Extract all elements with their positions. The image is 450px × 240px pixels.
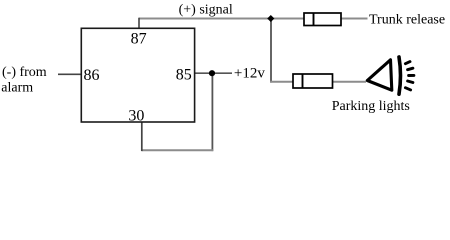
- svg-text:30: 30: [128, 108, 144, 125]
- svg-text:(+) signal: (+) signal: [179, 3, 233, 18]
- svg-text:Trunk release: Trunk release: [369, 13, 445, 28]
- svg-text:Parking lights: Parking lights: [332, 99, 410, 114]
- svg-text:(-) from: (-) from: [2, 65, 47, 80]
- svg-text:85: 85: [176, 67, 192, 84]
- svg-text:alarm: alarm: [1, 81, 33, 96]
- svg-text:87: 87: [131, 31, 147, 48]
- svg-text:86: 86: [84, 67, 100, 84]
- svg-text:+12v: +12v: [234, 66, 265, 82]
